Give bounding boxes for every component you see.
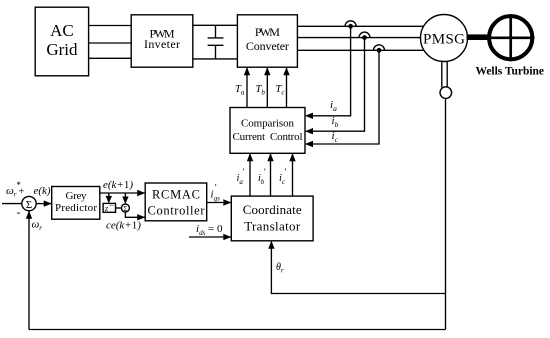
svg-text:Σ: Σ (26, 199, 32, 211)
svg-text:Current Control: Current Control (233, 131, 303, 143)
wire: theta_r tap to Coordinate Translator (271, 242, 445, 294)
wire: ce(k+1) to RCMAC (125, 212, 144, 217)
svg-text:PWM: PWM (255, 25, 280, 39)
arrowhead Ta into PWM Converter (244, 67, 250, 75)
wire: ib feedback (306, 38, 365, 132)
label - (17, 205, 21, 219)
svg-text:e(k+1): e(k+1) (103, 179, 133, 191)
position/speed sensor circle (440, 87, 452, 99)
arrowhead e(k+1) into RCMAC (137, 190, 145, 196)
label theta_r (276, 262, 284, 275)
label e(k+1) (103, 179, 133, 191)
wire: PWM Converter to PMSG phase c (297, 49, 424, 51)
svg-text:Comparison: Comparison (241, 118, 295, 130)
wire: omega_r feedback bottom run (29, 329, 446, 331)
arrowhead ia into Comparison box (305, 113, 313, 119)
svg-text:Wells Turbine: Wells Turbine (476, 66, 545, 78)
wire: sensor signal down (445, 98, 447, 329)
svg-text:Predictor: Predictor (55, 202, 97, 214)
wire: iqs* RCMAC to Coordinate Translator (207, 202, 231, 204)
svg-text:-: - (17, 205, 21, 219)
capacitor C (DC link) (208, 25, 224, 59)
svg-text:Inveter: Inveter (144, 37, 180, 51)
label e(k) (34, 185, 51, 197)
wire: Ta gate signal (246, 68, 248, 108)
arrowhead into delay box (106, 196, 112, 204)
wire: Tc gate signal (286, 68, 288, 108)
label Tc (276, 84, 286, 97)
arrowhead feedback into summing junction (26, 211, 32, 219)
svg-text:Coordinate: Coordinate (243, 202, 302, 217)
block Grey Predictor (52, 187, 100, 220)
wire: ic* command (292, 154, 294, 196)
svg-text:RCMAC: RCMAC (152, 187, 200, 201)
label ib (332, 115, 339, 129)
arrowhead Tc into PWM Converter (283, 67, 289, 75)
svg-text:AC: AC (50, 21, 74, 40)
svg-text:PMSG: PMSG (423, 32, 465, 48)
label ia* (237, 167, 245, 186)
wire: ia feedback (306, 26, 351, 116)
wire: branch down to difference junction (124, 193, 126, 197)
label ce(k+1) (106, 220, 141, 232)
wire: AC Grid to PWM Inverter (3 phase lines) (89, 26, 132, 59)
label ic* (279, 167, 287, 186)
wire: PWM Converter to PMSG phase b (297, 37, 420, 39)
arrowhead ce(k+1) into RCMAC (137, 214, 145, 220)
current sensor on phase c (374, 45, 385, 53)
label + (19, 187, 25, 198)
label omega_r* reference (6, 180, 21, 199)
arrowhead ic into Comparison box (305, 141, 313, 147)
arrowhead ids into Coordinate Translator (223, 234, 231, 240)
arrowhead ib into Comparison box (305, 128, 313, 134)
current sensor on phase a (345, 21, 356, 29)
arrowhead theta_r into Coordinate Translator (268, 241, 274, 249)
block Coordinate Translator (231, 196, 313, 241)
summing junction SUM (22, 196, 36, 210)
svg-text:Σ: Σ (123, 205, 127, 213)
svg-text:e(k): e(k) (34, 185, 51, 197)
difference junction circle (121, 204, 129, 213)
svg-text:Translator: Translator (244, 219, 301, 234)
label Ta (235, 84, 245, 97)
label Tb (256, 84, 266, 97)
wire: speed feedback up into summing junction (28, 211, 30, 330)
current sensor on phase b (359, 32, 370, 40)
turbine Wells Turbine symbol (487, 14, 534, 61)
svg-text:Grid: Grid (46, 40, 78, 59)
svg-text:ce(k+1): ce(k+1) (106, 220, 141, 232)
svg-text:Conveter: Conveter (246, 39, 289, 53)
generator PMSG (421, 15, 468, 62)
delay block z^-1 (103, 201, 115, 214)
wire: Tb gate signal (266, 68, 268, 108)
wire: e(k+1) Grey Predictor to RCMAC (100, 192, 145, 194)
wire: ib* command (270, 154, 272, 196)
block PWM Converter (237, 15, 297, 67)
arrowhead iqs* into Coordinate Translator (223, 199, 231, 205)
label iqs* (211, 183, 221, 203)
label ib* (258, 167, 266, 186)
wire: DC link top (193, 24, 238, 26)
arrowhead Tb into PWM Converter (264, 67, 270, 75)
arrowhead into difference junction (122, 197, 128, 205)
wire: delay box to difference junction (116, 207, 122, 209)
wire: speed reference input (2, 203, 22, 205)
block RCMAC Controller (145, 183, 207, 221)
svg-text:Controller: Controller (148, 204, 206, 218)
block AC Grid (35, 7, 88, 76)
wire: ic feedback (306, 50, 379, 144)
arrowhead ib* into Comparison box (267, 153, 273, 161)
label ids = 0 (196, 223, 223, 237)
arrowhead ic* into Comparison box (289, 153, 295, 161)
label ic (332, 130, 339, 144)
wire: ids=0 input (189, 236, 231, 238)
wire: PWM Converter to PMSG phase a (297, 25, 423, 27)
block Comparison Current Control (230, 108, 305, 154)
shaft coupling PMSG to Wells Turbine (467, 34, 489, 40)
wire: branch down to delay box (108, 193, 110, 196)
wire: summing junction to Grey Predictor (36, 203, 51, 205)
wire: ia* command (249, 154, 251, 196)
wire: DC link bottom (193, 58, 238, 60)
label omega_r feedback (32, 219, 43, 233)
arrowhead ia* into Comparison box (247, 153, 253, 161)
svg-text:Grey: Grey (66, 190, 88, 202)
shaft: PMSG to position sensor (double line) (442, 61, 447, 88)
label Wells Turbine (476, 66, 545, 78)
arrowhead e(k) into Grey Predictor (44, 200, 52, 206)
label ia (330, 99, 337, 113)
block PWM Inverter (131, 15, 193, 67)
